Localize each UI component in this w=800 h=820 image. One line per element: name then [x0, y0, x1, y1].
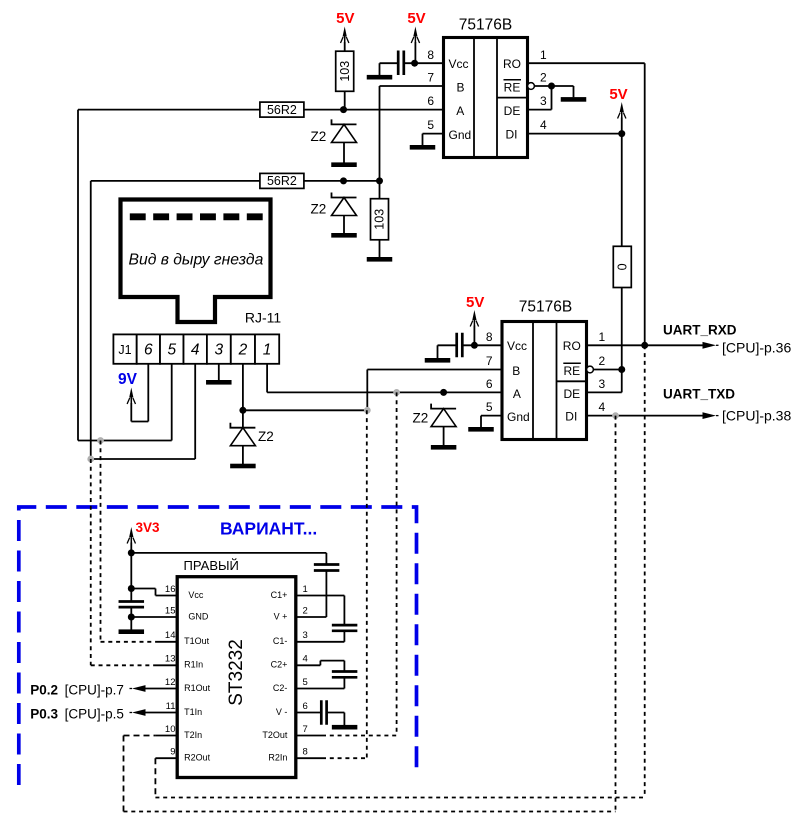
svg-text:13: 13 [165, 654, 176, 665]
zener diode D4 Z2 (A2 line) [431, 404, 456, 427]
svg-text:R2Out: R2Out [184, 753, 211, 763]
dashed wire x155 down [154, 758, 156, 797]
resistor R2 56R2 (A-line) [260, 102, 304, 117]
svg-text:6: 6 [427, 94, 434, 108]
arrow to CPU p.5 [130, 709, 146, 716]
svg-text:[CPU]-p.36: [CPU]-p.36 [722, 339, 791, 355]
dotted wire R2In right [322, 757, 367, 759]
svg-text:RJ-11: RJ-11 [245, 310, 282, 326]
svg-text:75176B: 75176B [459, 17, 512, 34]
power arrow 5V (U2 Vcc) [470, 310, 478, 327]
wire 5V arrow to DI junction [621, 118, 623, 134]
wire U2 pin 1 RO to UART_RXD arrow [587, 344, 705, 346]
dotted wire x645 down (RXD variant) [644, 345, 646, 797]
wire DE up to RE junction [551, 86, 553, 110]
svg-text:7: 7 [427, 71, 434, 85]
svg-text:RO: RO [563, 339, 581, 353]
svg-text:4: 4 [540, 118, 547, 132]
svg-text:Gnd: Gnd [449, 128, 472, 142]
svg-text:UART_TXD: UART_TXD [663, 387, 735, 402]
power arrow 5V (U1 Vcc) [411, 27, 419, 44]
svg-text:4: 4 [303, 654, 308, 665]
svg-text:R2In: R2In [268, 753, 287, 763]
wire D1 anode to ground [343, 142, 345, 162]
ground (C2) [425, 358, 451, 363]
svg-text:1: 1 [263, 342, 272, 359]
ground (U1 RE/DE) [561, 97, 587, 102]
svg-text:3: 3 [303, 630, 308, 641]
wire y369 horizontal to U2 pin 7 B [367, 369, 502, 371]
junction B-line / D2 [340, 177, 347, 184]
svg-text:Vcc: Vcc [188, 590, 204, 600]
node tap DI2 (gray) [612, 412, 619, 419]
ground (D4) [431, 445, 457, 450]
ground (C3 / U3 GND) [119, 629, 145, 634]
wire U3 pin 1 C1+ stub [296, 595, 345, 597]
junction U2 Vcc node [471, 342, 478, 349]
wire C7 to ground [343, 713, 345, 726]
wire y459 horizontal (B-line to pin4) [91, 458, 195, 460]
svg-text:4: 4 [599, 400, 606, 414]
wire vertical x645 U1 RO to U2 RO node [644, 63, 646, 345]
wire RE node down to ground [573, 86, 575, 97]
svg-text:R1In: R1In [184, 660, 203, 670]
svg-text:3: 3 [540, 94, 547, 108]
svg-text:R1Out: R1Out [184, 683, 211, 693]
svg-text:C2-: C2- [273, 683, 288, 693]
svg-text:16: 16 [165, 584, 176, 595]
wire U1 pin 3 DE stub [528, 109, 552, 111]
ground (C1) [367, 75, 393, 80]
junction A-line / R1 / D1 [340, 106, 347, 113]
svg-text:A: A [513, 387, 521, 401]
svg-text:P0.2: P0.2 [30, 682, 58, 697]
wire J1 pin 2 down to D3 [242, 364, 244, 428]
wire A-line horizontal y109 (56R2 R2 to U1 pin 6 A) [78, 109, 444, 111]
variant boundary (blue dashed box) [19, 507, 417, 785]
svg-text:103: 103 [373, 209, 387, 230]
wire U2 pin 5 Gnd stub [481, 415, 502, 417]
svg-text:3: 3 [599, 377, 606, 391]
ground (J1 pin 3) [206, 380, 232, 385]
junction U1 DI / 5V / R5 [618, 130, 625, 137]
wire U3 pin 3 C1- stub [296, 641, 345, 643]
svg-text:8: 8 [486, 330, 493, 344]
wire U3 pin 2 V+ stub [296, 616, 327, 618]
wire C6 to C2- pin [343, 677, 345, 688]
power arrow 5V (R1) [341, 27, 349, 44]
RJ-11 socket face outline [121, 200, 271, 323]
svg-text:P0.3: P0.3 [30, 706, 58, 721]
ground (R4) [367, 257, 393, 262]
capacitor C2 (U2 Vcc decoupling) [457, 333, 463, 358]
junction 3V3 / V+ cap line [128, 549, 135, 556]
wire C5 to C1- pin [343, 631, 345, 642]
wire U3 pin 7 T2Out stub [296, 735, 322, 737]
dotted wire x367 up to B2 tap [366, 410, 368, 758]
svg-text:1: 1 [303, 584, 308, 595]
wire B-line vertical x379 [379, 86, 381, 181]
svg-text:3V3: 3V3 [135, 520, 160, 535]
svg-text:5: 5 [486, 400, 493, 414]
svg-text:T2Out: T2Out [262, 730, 288, 740]
svg-text:75176B: 75176B [519, 299, 572, 316]
wire U3 pin 10 T2In stub [155, 735, 177, 737]
svg-text:ВАРИАНТ...: ВАРИАНТ... [220, 519, 317, 539]
svg-text:5V: 5V [336, 10, 354, 27]
svg-text:A: A [456, 104, 464, 118]
arrow to CPU p.36 [703, 342, 719, 349]
wire U1 Gnd down [422, 134, 424, 146]
capacitor C1 (U1 Vcc decoupling) [398, 51, 404, 76]
capacitor C6 (C2 flying cap) [332, 672, 358, 678]
dotted wire y811 bus [124, 811, 616, 813]
IC U3 ST3232 body [177, 577, 296, 778]
wire y392 horizontal (pin1 to U2 pin 6 A) [267, 391, 502, 393]
wire left vertical x91 (B-line down) [90, 181, 92, 459]
wire U3 Vcc jog v [155, 589, 157, 596]
svg-text:3: 3 [215, 342, 224, 359]
node tap A2 (gray) [393, 389, 400, 396]
ground (U2 pin 5) [468, 427, 494, 432]
junction U2 RE/DE/R5 [618, 366, 625, 373]
svg-text:2: 2 [238, 342, 248, 359]
svg-text:DE: DE [504, 104, 521, 118]
wire C1 left plate [380, 62, 399, 64]
svg-text:T1Out: T1Out [184, 636, 210, 646]
svg-text:Z2: Z2 [311, 202, 327, 217]
U1 RE inversion bubble [528, 83, 535, 90]
wire R5 to U2 RE junction [621, 288, 623, 370]
wire 3V3 vertical [130, 543, 132, 602]
svg-text:2: 2 [599, 354, 606, 368]
svg-text:5: 5 [427, 118, 434, 132]
ground (D2) [331, 233, 357, 238]
wire R1 to node A-line [344, 91, 346, 109]
wire U1 pin 2 RE to ground [534, 85, 573, 87]
wire C2 left plate [438, 344, 457, 346]
wire 5V to U1 Vcc node [414, 42, 416, 63]
RJ-11 socket contact dashes [130, 213, 263, 220]
capacitor C7 (V-) [321, 700, 326, 725]
svg-text:RE: RE [504, 81, 521, 95]
wire U3 pin 16 Vcc stub [156, 595, 178, 597]
svg-text:56R2: 56R2 [267, 103, 297, 117]
svg-text:1: 1 [599, 330, 606, 344]
svg-text:5V: 5V [466, 294, 484, 311]
wire U1 pin 1 RO to vertical x645 [528, 62, 645, 64]
capacitor C5 (C1 flying cap) [332, 625, 358, 631]
wire U3 pin 15 GND stub [131, 616, 177, 618]
wire U2 pin 2 RE to R5 node [593, 369, 621, 371]
svg-text:Z2: Z2 [258, 429, 274, 444]
svg-text:Vcc: Vcc [449, 57, 469, 71]
wire U1 pin 7 B stub [380, 85, 444, 87]
ground (D1) [331, 162, 357, 167]
zener diode D3 Z2 (pin2 line) [230, 423, 255, 446]
wire down to C6 [343, 661, 345, 672]
svg-text:6: 6 [486, 377, 493, 391]
svg-text:2: 2 [540, 71, 547, 85]
wire 9V horizontal [131, 421, 148, 423]
node tap B2 (gray) [364, 407, 371, 414]
dashed wire T2In left [124, 735, 156, 737]
wire C1 to ground [379, 63, 381, 75]
wire J1 pin 5 down [171, 364, 173, 441]
junction J1 pin2 / line to U2 B [239, 407, 246, 414]
wire U3 Vcc jog h1 [131, 588, 155, 590]
dotted wire T2Out right [322, 735, 397, 737]
wire 9V arrow down [130, 403, 132, 422]
wire U2 pin 4 DI to UART_TXD arrow [587, 415, 705, 417]
svg-text:DI: DI [506, 128, 518, 142]
power arrow 3V3 [127, 527, 135, 544]
capacitor C3 (3V3 decoupling) [119, 602, 145, 608]
svg-text:10: 10 [165, 724, 176, 735]
IC U2 75176B (middle) body [502, 322, 587, 440]
junction U3 GND node [128, 614, 135, 621]
wire 9V up to J1 pin 6 [147, 364, 149, 422]
power arrow 5V (DI node) [618, 102, 626, 119]
junction A2 / D4 [440, 389, 447, 396]
svg-text:B: B [457, 80, 465, 94]
dotted wire x615 down (TXD variant) [615, 416, 617, 812]
svg-text:4: 4 [191, 342, 200, 359]
svg-text:[CPU]-p.38: [CPU]-p.38 [722, 407, 791, 423]
wire U3 pin 12 R1Out stub [145, 688, 177, 690]
wire left vertical x78 (A-line down) [77, 110, 79, 441]
arrow to CPU p.38 [703, 412, 719, 419]
svg-text:Z2: Z2 [413, 411, 429, 426]
svg-text:9: 9 [170, 747, 175, 758]
dotted wire x396 up to A2 tap [396, 392, 398, 735]
wire U3 pin 13 R1In stub [156, 664, 178, 666]
svg-text:Gnd: Gnd [507, 410, 530, 424]
dotted wire to R1In [91, 664, 156, 666]
svg-text:5V: 5V [609, 86, 627, 103]
junction B-line / R4 [376, 177, 383, 184]
wire U3 pin 11 T1In stub [145, 712, 177, 714]
junction U1 RE/DE [548, 83, 555, 90]
svg-text:V -: V - [276, 707, 288, 717]
svg-text:C1-: C1- [273, 636, 288, 646]
svg-text:103: 103 [338, 61, 352, 82]
wire U3 pin 14 T1Out stub [156, 641, 178, 643]
ground (C7) [332, 725, 358, 730]
wire 5V to R1 [344, 42, 346, 51]
resistor R4 103 [371, 199, 389, 240]
svg-text:[CPU]-p.7: [CPU]-p.7 [65, 682, 124, 697]
wire x622 vertical DI node to R5 [621, 134, 623, 247]
svg-text:DI: DI [565, 410, 577, 424]
arrow to CPU p.7 [130, 685, 146, 692]
svg-text:RO: RO [503, 57, 521, 71]
svg-text:2: 2 [303, 605, 308, 616]
zener diode D1 Z2 (A-line) [332, 119, 357, 142]
wire D4 anode to ground [443, 427, 445, 446]
dotted wire x100 (A-line tap down) [100, 441, 102, 642]
wire U3 pin 6 V- stub [296, 712, 322, 714]
svg-text:ПРАВЫЙ: ПРАВЫЙ [184, 558, 239, 573]
node tap A-line (gray) [97, 437, 104, 444]
wire U1 pin 5 Gnd stub [423, 133, 444, 135]
svg-text:[CPU]-p.5: [CPU]-p.5 [65, 706, 124, 721]
svg-text:6: 6 [303, 701, 308, 712]
wire y410 horizontal (pin2 to U2 B riser) [243, 409, 367, 411]
dashed wire x123 down [123, 736, 125, 812]
junction 3V3 / U3 Vcc [128, 585, 135, 592]
wire U2 pin 3 DE stub [587, 391, 622, 393]
wire C2+ jog right [320, 660, 344, 662]
svg-text:6: 6 [144, 342, 153, 359]
svg-text:DE: DE [563, 387, 580, 401]
svg-text:14: 14 [165, 630, 176, 641]
svg-text:Z2: Z2 [311, 129, 327, 144]
wire x326 3V3 line to C4 top [325, 553, 327, 565]
wire DE up to RE junction [621, 370, 623, 393]
wire C4 bottom to V+ pin [325, 571, 327, 618]
svg-text:V +: V + [274, 611, 288, 621]
node tap B-line (gray) [87, 456, 94, 463]
svg-text:RE: RE [563, 364, 580, 378]
svg-text:UART_RXD: UART_RXD [663, 323, 737, 338]
svg-text:1: 1 [540, 48, 547, 62]
svg-text:B: B [512, 364, 520, 378]
wire R4 bottom to ground [379, 240, 381, 258]
wire U3 pin 8 R2In stub [296, 757, 322, 759]
svg-text:8: 8 [427, 48, 434, 62]
svg-text:C2+: C2+ [271, 660, 288, 670]
IC U1 75176B (top) body [444, 38, 528, 158]
wire B-line horizontal y181 [91, 180, 380, 182]
svg-text:12: 12 [165, 677, 176, 688]
svg-text:T1In: T1In [184, 707, 202, 717]
svg-text:7: 7 [303, 724, 308, 735]
wire U2 Gnd down [480, 416, 482, 428]
ground (D3) [230, 464, 256, 469]
wire D3 anode to ground [242, 446, 244, 464]
wire U3 pin 9 R2Out stub [155, 757, 177, 759]
svg-text:9V: 9V [118, 371, 138, 388]
ground (U1 pin 5) [410, 145, 436, 150]
svg-text:5: 5 [303, 677, 308, 688]
wire C3 bottom to ground [130, 607, 132, 630]
svg-text:J1: J1 [118, 343, 131, 357]
wire C7 right plate [327, 712, 345, 714]
svg-text:11: 11 [166, 701, 176, 712]
wire U3 pin 5 C2- stub [296, 688, 345, 690]
U2 RE inversion bubble [587, 366, 594, 373]
svg-text:Vcc: Vcc [507, 339, 527, 353]
junction RO2 / vertical x645 [641, 342, 648, 349]
wire C2+ jog up [319, 661, 321, 666]
wire C1 to U1 pin 8 Vcc [404, 62, 444, 64]
wire R4 top [379, 181, 381, 199]
wire J1 pin 1 down [266, 364, 268, 393]
dotted wire x91 (B-line tap down) [90, 459, 92, 665]
svg-text:C1+: C1+ [271, 590, 288, 600]
wire J1 pin 4 down [194, 364, 196, 459]
capacitor C4 (V+ to 3V3) [314, 565, 340, 571]
svg-text:5V: 5V [407, 10, 425, 27]
wire x367 vertical up to B row [366, 370, 368, 411]
wire U1 pin 4 DI to 5V node [528, 133, 622, 135]
dotted wire y797 bus [155, 797, 644, 799]
wire y440 horizontal (A-line to pin5) [78, 440, 172, 442]
svg-text:ST3232: ST3232 [226, 639, 247, 706]
svg-text:15: 15 [165, 605, 176, 616]
resistor R5 0 [613, 246, 631, 287]
resistor R3 56R2 (B-line) [260, 173, 304, 188]
wire D2 anode to ground [343, 216, 345, 234]
wire C2 to ground [437, 345, 439, 358]
junction U1 Vcc node [411, 60, 418, 67]
resistor R1 103 [336, 51, 354, 91]
svg-text:8: 8 [303, 747, 308, 758]
svg-text:GND: GND [188, 611, 209, 621]
wire C1+ down to C5 [343, 596, 345, 626]
dotted wire to T1Out [101, 641, 156, 643]
wire U3 pin 4 C2+ stub [296, 664, 321, 666]
wire C2 to U2 pin 8 Vcc [462, 344, 502, 346]
svg-text:0: 0 [616, 263, 630, 270]
svg-text:T2In: T2In [184, 730, 202, 740]
wire J1 pin 3 down [218, 364, 220, 381]
wire 5V to U2 Vcc node [473, 326, 475, 346]
svg-text:Вид в дыру гнезда: Вид в дыру гнезда [129, 252, 264, 269]
wire y553 горизонтал 3V3 to V+ cap [131, 552, 326, 554]
zener diode D2 Z2 (B-line) [332, 193, 357, 216]
svg-text:5: 5 [167, 342, 176, 359]
power arrow 9V [127, 388, 135, 405]
connector J1 row of cells [113, 334, 279, 363]
svg-text:56R2: 56R2 [267, 174, 297, 188]
svg-text:7: 7 [486, 354, 493, 368]
